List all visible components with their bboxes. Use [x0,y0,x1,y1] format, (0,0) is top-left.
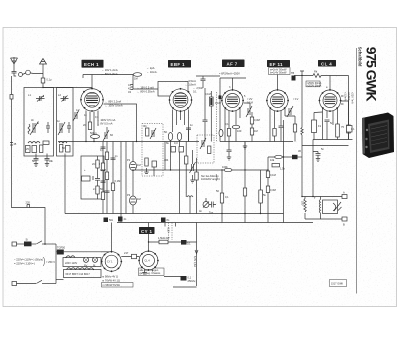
res under tube3 [227,129,230,137]
wire switch1 out [42,243,56,245]
tube CL4out U7 [138,250,159,271]
res x268b [266,186,269,193]
comp column x107 [106,142,108,214]
tube4 pin wires [270,109,285,129]
res under tube4 [273,129,276,137]
res left under tube5 [312,120,317,133]
grid box tube2 [158,82,188,97]
node b1 [85,141,86,142]
pot lines P1 [131,165,136,168]
IF3 res [208,146,211,154]
wire x222 [221,170,223,223]
wire tube1 anode right [104,104,137,142]
comp cluster right of IF1: resistor [185,156,188,164]
elko cap a [104,218,109,223]
wire earth down [42,64,44,88]
wire y157 [268,156,292,158]
res oval t2b [177,133,181,141]
bandfilter box 2 [57,88,74,157]
switch 2 [36,280,42,283]
resistor x107a [105,152,108,160]
node t2avc [170,169,171,170]
node earth-bus [42,87,43,88]
tube label box CL4 [318,60,336,67]
node x245avc [244,169,245,170]
coil bottom box1 [28,142,40,144]
wire notebox to cap [164,276,181,278]
cap gnd 1 [34,154,39,167]
wire x121 [120,142,122,223]
IF2 dashed box [142,124,163,177]
coil oval under tube1 [91,135,100,139]
resistor cluster2 [195,172,198,180]
trimmer cap box1 [36,96,45,102]
dark box br [181,276,187,281]
cap box1 [46,122,50,133]
boxed voltage line [102,283,134,288]
wire x352 [348,76,350,140]
vol pot arrow [203,202,209,208]
wire to plug [14,73,16,76]
IF2 stub comps [144,167,154,176]
note box under tube7 [139,268,165,276]
stamp box bottom right [330,280,347,287]
wire switch2 out [42,283,56,285]
dark box TB [292,76,296,81]
tube7 gnd pins [142,270,152,275]
cap gnd x318 [313,152,321,162]
res x222 [220,193,223,203]
right text col ticks [341,96,344,104]
socket in eye box [82,176,91,181]
mains wire 1 [17,243,25,245]
wire x133 [132,142,134,214]
text box above tube4 [269,68,291,75]
fuse left rail [10,95,13,100]
trimmer right of tube3 [244,103,253,117]
node busA245 [244,213,245,214]
node busA222 [221,213,222,214]
anode supply wire [56,251,102,253]
node avc x133 [132,169,133,170]
node x220 [219,96,222,100]
bus B y222 [117,222,313,224]
capacitor antenna [12,72,17,74]
res x268a [266,171,269,178]
heater dashed a [168,223,170,241]
mains wire 2 [17,283,37,285]
mains terminal 1 [12,242,17,246]
fuse dark [24,242,32,247]
varcap box1 [30,122,38,135]
oval under tube3 left [219,129,223,136]
coil cluster [187,196,193,197]
res x103 [101,163,104,171]
tube EBF1 U2 [169,88,193,112]
cap x103a [101,147,106,149]
cap x113 [111,158,116,160]
cap box2 [67,122,71,133]
arrow x196 [195,250,198,254]
resistor under tube1 [88,122,91,130]
res stack x252 [250,117,253,124]
wire to tube5 [321,76,349,90]
wire left rail [12,76,46,244]
res oval y157 [275,155,283,158]
dark res x211 [210,97,214,106]
cap gnd 2 [45,154,50,167]
wire y141 right [220,141,258,143]
mains terminal 2 [12,282,17,286]
title separator line [356,48,358,294]
node feed1 [148,241,149,242]
wire x283 [283,120,285,223]
wire x205 [204,88,206,142]
pot lines P2 [131,199,136,202]
screen bus y145 [302,145,349,147]
resistor 1M oval [133,73,141,77]
wire x302 down [301,76,303,197]
lamp cross 1 [84,258,88,262]
pot oval P2 [130,196,137,205]
winding box 1 [63,258,101,267]
gnd x245 [243,142,247,150]
tube label box ECH1 [82,60,104,68]
resistor box1 [28,124,30,134]
cap y150 t3 [227,142,232,158]
pot oval P1 [130,162,137,171]
IF3 dashed box [197,135,214,163]
wire to switch1 [32,243,37,245]
wire cluster verticals [186,142,196,214]
wire rect tube in [101,251,112,253]
tube AF7 U3 [221,89,244,112]
tube2 pin wires [173,110,189,133]
wire osc grid [133,75,158,90]
bandfilter box 1 [24,88,54,157]
terminal top [342,195,347,199]
node b2 [93,141,94,142]
tube CL4 U5 [319,89,342,112]
comp column x113 [112,142,114,214]
lamp cross 2 [93,258,97,262]
text box left of tube5 [306,81,320,87]
resistor bottom box1 [43,141,49,144]
resistor row box1 [40,145,43,153]
cap t2 [186,128,191,142]
trimmer right of tube4 [287,106,293,117]
wire x295 [285,116,295,142]
wire x126 [125,142,127,214]
eye wires [97,156,99,199]
bus y139 right [313,139,353,141]
wire y157b [298,156,303,158]
switch row box2 [66,146,71,153]
winding bumps 2 [67,268,94,270]
res 2W [159,240,168,244]
tick left rail [10,143,13,146]
res zigzag output [304,197,306,213]
res x260 [259,190,263,203]
wire x245 [244,142,246,223]
tube3 pin wires [225,109,240,129]
node mains1 [44,243,46,245]
tube5 pin wires [323,109,338,126]
dark box y157 [292,155,298,159]
resistor x113 [111,183,114,191]
radio cabinet photo [362,113,394,159]
tube EF11 U4 [266,89,289,112]
lamp circle 1 [83,257,88,262]
cap tube3 left [203,117,208,128]
lamp circle 2 [92,257,97,262]
zigzag x302 [301,128,303,136]
resistor avc oval [224,168,232,171]
varcap box2 [58,122,65,135]
dark box right [181,240,187,245]
wires tube5 bottom [323,101,349,140]
trimmer between box2 and tube1 [73,110,79,121]
wire x170 drop [164,142,166,171]
wire antenna down [13,64,15,72]
transformer coil [319,197,320,220]
rect tube feed wire [111,223,113,252]
elko cap b [118,217,123,222]
cap x203 [201,76,206,88]
trimmer cluster [190,162,196,173]
winding connect dots [65,257,66,258]
elko cap c [161,218,166,223]
bracket nur bei [216,174,217,181]
resistor row box2 [60,145,63,153]
output tube top wire [149,223,197,252]
bracket voltage [44,257,45,266]
main bus y141 [58,141,199,143]
wire y80 [196,75,220,77]
res x245 low [243,188,246,196]
cap near pot [206,198,216,208]
node283 [283,156,284,157]
TGF50 dark box [57,250,64,255]
magic eye box [81,156,104,199]
wire bottom left stub [56,279,64,281]
speaker [333,202,342,211]
eye box ticks [92,177,94,179]
res oval t2a [168,133,172,141]
wire between tubes [121,256,139,258]
node avc268 [267,169,268,170]
tube ECH1 U1 [80,88,104,112]
wire y287 bottom [173,286,197,288]
oval under tube3 [232,125,240,128]
resistor zigzag top [313,74,321,78]
gnd cluster [190,175,194,183]
wire x313 [312,140,314,197]
wire x220 [219,78,221,142]
node busA260 [260,213,261,214]
wire grid3 top [220,78,246,91]
res stack x252b [250,128,253,135]
resistor earth [41,78,45,83]
cap under tube5 [325,120,330,140]
res under tube5 a [336,124,340,137]
node 302 [301,75,302,76]
IF2 trim [150,128,156,139]
box between tubes [132,254,137,258]
tube label box AF7 [222,60,245,68]
anode bus tube1 [83,75,133,89]
small box cluster a [171,147,176,153]
terminal bottom [342,217,347,221]
switch row box1 b [32,146,37,153]
node out2 [301,196,302,197]
wire x196 [196,223,198,287]
fill res x211 [210,98,212,105]
tube1 pin wires [86,111,98,142]
heater dashed b [171,223,173,241]
wire x252 [251,112,253,142]
trimmer under tube1 [98,120,109,141]
IF2 res lower [145,158,148,166]
bus A y213 [65,213,284,215]
output bottom wire [305,213,342,219]
IF3 trim [200,138,206,149]
switch 1 [36,241,42,244]
pin ticks [131,85,134,90]
resistor x107b [105,172,108,180]
IF2 coil res [146,128,149,136]
vol pot circle [203,202,209,208]
wire x260 [260,170,262,214]
anode bus top right [294,75,313,77]
cap under tube4 [279,125,284,142]
eye res b [96,186,99,194]
transformer box [323,200,338,214]
cap x107 [105,191,110,193]
antenna [11,57,18,64]
tube label box EF11 [267,60,290,67]
wire top bus to tube1 [43,88,92,90]
winding box 2 [64,270,102,278]
wire res left t5 [314,112,323,140]
wires t2 bottom [171,122,189,214]
wire x211 [210,91,212,142]
wire x65 down [64,154,66,214]
wire x268 stack [267,157,269,223]
cap x103b [101,181,106,183]
node b3 [136,141,137,142]
switch row box1 a [26,146,31,153]
heater rail [55,244,57,284]
res dark x295 [293,124,296,132]
comp column x103 [102,142,104,214]
eye res a [96,160,99,168]
trimmer cap box2 [61,96,69,102]
small box cluster b [179,147,184,153]
tube CY1 U6 [101,251,122,272]
dashed vertical x216 [216,92,218,142]
earth cone [40,59,47,65]
output top wire [302,196,342,198]
coil bottom box2 [59,142,67,144]
label 7 terminal [300,71,304,76]
res x103c [101,192,104,200]
wire tube4 top [277,75,279,91]
res under tube5 b [347,125,351,133]
node out1 [312,196,313,197]
gnd t3b [227,157,231,160]
plug socket [19,73,23,77]
avc bus y170 [133,169,268,171]
tube label box CY1 [139,227,155,234]
winding bumps 1 [66,256,75,258]
node avc222 [221,169,222,170]
IF2 box lower [152,161,157,167]
wires tube4 bottom [258,122,293,142]
eye cap [95,179,100,181]
res horiz y165 [272,164,280,167]
tube label box EBF1 [168,60,191,68]
winding connect dots2 [93,269,94,270]
small box x352 [347,126,353,133]
heater bumps small [165,223,176,227]
plug symbol mid-left [27,205,30,208]
wires tube3 to bus [225,120,236,142]
